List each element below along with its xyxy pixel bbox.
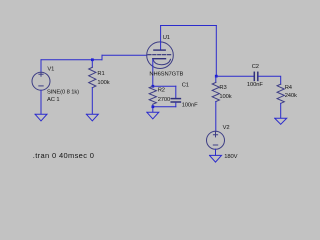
wire cathode to C1: [153, 85, 176, 87]
svg-text:100nF: 100nF: [247, 82, 263, 88]
wire R1 top lead: [91, 60, 93, 68]
resistor R1: [89, 67, 96, 87]
wire C2 to R4 corner: [258, 76, 280, 84]
tube U1 cathode bar: [153, 58, 166, 60]
resistor R3: [212, 82, 219, 101]
wire V1 top lead: [40, 60, 42, 72]
ground V1: [35, 114, 47, 121]
svg-text:.tran 0 40msec 0: .tran 0 40msec 0: [33, 151, 94, 160]
wire grid net horizontal from V1 to jog: [41, 59, 102, 61]
wire R3 to V2: [215, 102, 217, 132]
resistor R3 top lead: [215, 76, 217, 82]
resistor R4: [277, 84, 284, 103]
tube U1 grid dashes: [148, 54, 172, 56]
wire plate lead from top rail: [160, 26, 162, 50]
svg-text:180V: 180V: [224, 154, 237, 160]
node grid junction: [91, 58, 94, 61]
svg-text:U1: U1: [163, 35, 170, 41]
svg-text:2700: 2700: [158, 97, 171, 103]
wire C1 top lead: [175, 86, 177, 98]
tube U1 plate bar: [154, 49, 165, 51]
ground R4: [275, 118, 287, 124]
wire V2 bottom lead: [215, 149, 217, 155]
svg-text:V2: V2: [223, 125, 230, 131]
svg-text:240k: 240k: [285, 93, 297, 99]
node plate junction: [215, 75, 218, 78]
svg-text:100nF: 100nF: [182, 102, 198, 108]
ground R1: [86, 114, 98, 121]
wire V1 bottom lead: [40, 90, 42, 114]
svg-text:R3: R3: [219, 85, 226, 91]
svg-text:C2: C2: [252, 64, 259, 70]
svg-text:AC 1: AC 1: [47, 97, 60, 103]
svg-text:R2: R2: [158, 88, 165, 94]
wire C1 bottom lead: [175, 103, 177, 107]
svg-text:R1: R1: [97, 71, 104, 77]
wire cathode lead: [152, 59, 154, 86]
svg-text:V1: V1: [47, 67, 54, 73]
tube U1 heater arc: [153, 59, 170, 64]
svg-text:C1: C1: [182, 83, 189, 89]
svg-text:100k: 100k: [97, 80, 109, 86]
wire plate junction to C2: [216, 75, 253, 77]
voltage source V2: [207, 131, 225, 149]
wire C1 bottom to R2 bottom: [153, 106, 176, 108]
node R2 bottom junction: [152, 105, 155, 108]
wire jog vertical: [101, 55, 103, 59]
wire right rail down: [215, 26, 217, 77]
wire top rail: [161, 25, 217, 27]
capacitor C2: [254, 72, 257, 80]
tube U1 envelope: [147, 42, 174, 69]
ground V2: [210, 155, 222, 162]
capacitor C1: [171, 99, 180, 102]
wire jog to tube grid: [102, 54, 147, 56]
wire R4 bottom lead: [280, 103, 282, 118]
wire R1 bottom lead: [91, 88, 93, 114]
svg-text:SINE(0 8 1k): SINE(0 8 1k): [47, 90, 79, 96]
svg-text:R4: R4: [285, 85, 293, 91]
voltage source V1: [32, 72, 50, 90]
svg-text:NH6SN7GTB: NH6SN7GTB: [149, 71, 183, 77]
ground R2: [147, 112, 159, 119]
svg-text:100k: 100k: [219, 94, 231, 100]
resistor R2: [149, 86, 156, 107]
node cathode junction: [152, 85, 155, 88]
wire R2 ground lead: [152, 107, 154, 112]
